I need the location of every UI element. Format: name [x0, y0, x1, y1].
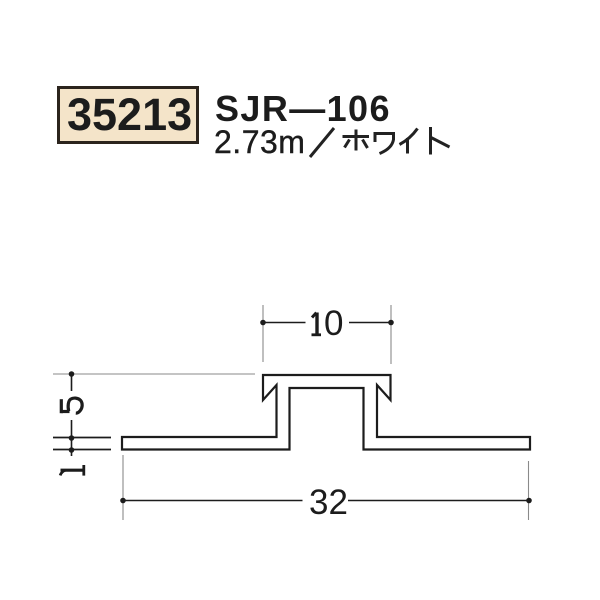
extension line flange top (for dim 1): [53, 437, 111, 439]
dim text 32 (HTML for grayscale AA): [309, 483, 348, 523]
extension line right of dim 10: [390, 305, 392, 364]
dim text 10 digit 0 (HTML for grayscale AA): [324, 304, 343, 344]
extension line left of dim 10: [262, 305, 264, 362]
extension line right of dim 32: [528, 461, 530, 520]
extension line cap top (for dim 5): [53, 373, 255, 375]
dimension line 5: [71, 374, 73, 438]
product code box 35213: [57, 86, 199, 144]
katakana to: [431, 127, 450, 155]
extension line flange bottom (for dim 1): [53, 449, 111, 451]
extension line left of dim 32: [122, 455, 124, 520]
spec text 2.73m: [214, 124, 305, 161]
katakana ho: [343, 130, 370, 151]
spec text slash + katakana howaito (drawn as SVG strokes): [300, 120, 460, 165]
dim 10 end dots: [260, 320, 266, 326]
dim text 5 (rotated, drawn): [61, 398, 82, 413]
dim 5 end dots: [69, 371, 75, 377]
katakana wa: [375, 134, 394, 154]
dimension line 10: [263, 322, 391, 324]
dim 1 bottom dot: [69, 447, 75, 453]
dimension line 1: [71, 438, 73, 456]
dim text 1 (rotated, drawn with base serif): [60, 465, 84, 476]
fullwidth slash: [310, 128, 334, 157]
katakana i: [400, 129, 418, 154]
profile outline (hat channel cross-section): [122, 375, 530, 450]
model number SJR-106: [215, 88, 391, 130]
dim text 10 digit 1 (drawn, with base serif): [312, 313, 322, 335]
dim 32 end dots: [120, 498, 126, 504]
dimension line 32: [123, 500, 529, 502]
